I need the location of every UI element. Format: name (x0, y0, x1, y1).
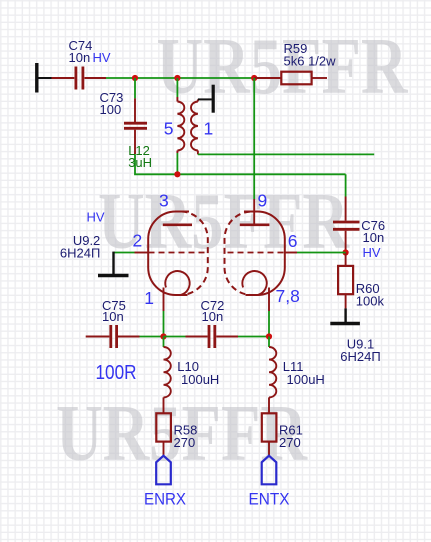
resistor R58 (156, 413, 171, 455)
cathode lead pin7,8 (268, 288, 270, 312)
wire C72 to node K2 (238, 336, 269, 338)
node A (174, 171, 180, 177)
svg-text:3: 3 (159, 191, 169, 211)
svg-text:HV: HV (87, 210, 105, 225)
grid lead pin6 (285, 252, 297, 254)
wire C73 branch (134, 78, 136, 98)
connector ENRX (156, 456, 171, 485)
wire C76 branch (345, 174, 347, 196)
svg-text:1: 1 (204, 119, 214, 139)
svg-text:9: 9 (258, 191, 268, 211)
svg-text:10n: 10n (363, 230, 385, 245)
svg-text:6Н24П: 6Н24П (340, 349, 380, 364)
transformer L12 winding 1 (191, 99, 198, 154)
connector ENTX (262, 456, 277, 485)
svg-text:7,8: 7,8 (276, 286, 300, 306)
wire top rail (106, 77, 254, 79)
cathode U9.1 (242, 271, 266, 295)
svg-text:5: 5 (164, 119, 174, 139)
wire L12.5 bottom (176, 153, 178, 174)
wire pin9 from top node (253, 78, 255, 199)
node K1 (160, 333, 166, 339)
grid U9.1 dashed (228, 252, 285, 254)
ground right (330, 308, 360, 323)
capacitor C76 (333, 197, 360, 253)
grid lead pin2 (135, 252, 149, 254)
svg-text:100uH: 100uH (287, 372, 325, 387)
svg-text:ENRX: ENRX (144, 490, 186, 509)
resistor R61 (262, 413, 277, 455)
svg-text:10n: 10n (69, 50, 91, 65)
cathode lead pin1 (163, 288, 165, 312)
terminal transformer top (198, 85, 213, 113)
wire L12.5 top (176, 78, 178, 97)
svg-text:HV: HV (93, 50, 111, 65)
svg-text:10n: 10n (202, 309, 224, 324)
node K2 (266, 333, 272, 339)
terminal input left (37, 63, 52, 93)
capacitor C74 (52, 67, 107, 90)
svg-text:5k6 1/2w: 5k6 1/2w (284, 54, 337, 69)
svg-text:270: 270 (279, 435, 301, 450)
grid U9.2 dashed (149, 252, 206, 254)
anode plate U9.1 (240, 224, 270, 227)
svg-text:10n: 10n (102, 309, 124, 324)
capacitor C75 (86, 325, 140, 348)
inductor L10 (163, 337, 165, 348)
svg-text:6Н24П: 6Н24П (60, 246, 100, 261)
svg-text:2: 2 (132, 230, 142, 250)
tube U9.2 left: envelope dashed (180, 212, 208, 296)
node grid6 (343, 249, 349, 255)
svg-text:6: 6 (288, 231, 298, 251)
node top-R59 (251, 75, 257, 81)
wire C73 bottom to node A (135, 154, 346, 174)
wire L12.1 bottom stub (198, 153, 374, 155)
wire C75 to node K1 (140, 336, 164, 338)
wire K1 to C72 (164, 336, 186, 338)
svg-text:100k: 100k (356, 294, 385, 309)
tube U9.2 left: envelope solid (148, 212, 189, 296)
node top-C73 (132, 75, 138, 81)
svg-text:270: 270 (174, 435, 196, 450)
resistor R59 (254, 72, 327, 85)
capacitor C73 (124, 98, 147, 154)
capacitor C72 (186, 325, 239, 348)
tube U9.1 right: envelope dashed (225, 212, 253, 296)
anode plate U9.2 (163, 224, 192, 227)
resistor R60 (338, 253, 353, 309)
svg-text:ENTX: ENTX (249, 490, 290, 509)
svg-text:1: 1 (144, 288, 154, 308)
ground left (98, 252, 129, 276)
transformer L12 winding 5 (177, 97, 184, 153)
svg-text:HV: HV (363, 245, 381, 260)
svg-text:100: 100 (100, 102, 122, 117)
cathode U9.2 (165, 271, 189, 295)
inductor L11 (268, 337, 270, 348)
tube U9.1 right: envelope solid (244, 212, 285, 296)
svg-text:100uH: 100uH (181, 372, 219, 387)
node top-L12 (174, 75, 180, 81)
svg-text:3uH: 3uH (128, 155, 152, 170)
svg-text:100R: 100R (96, 362, 137, 384)
